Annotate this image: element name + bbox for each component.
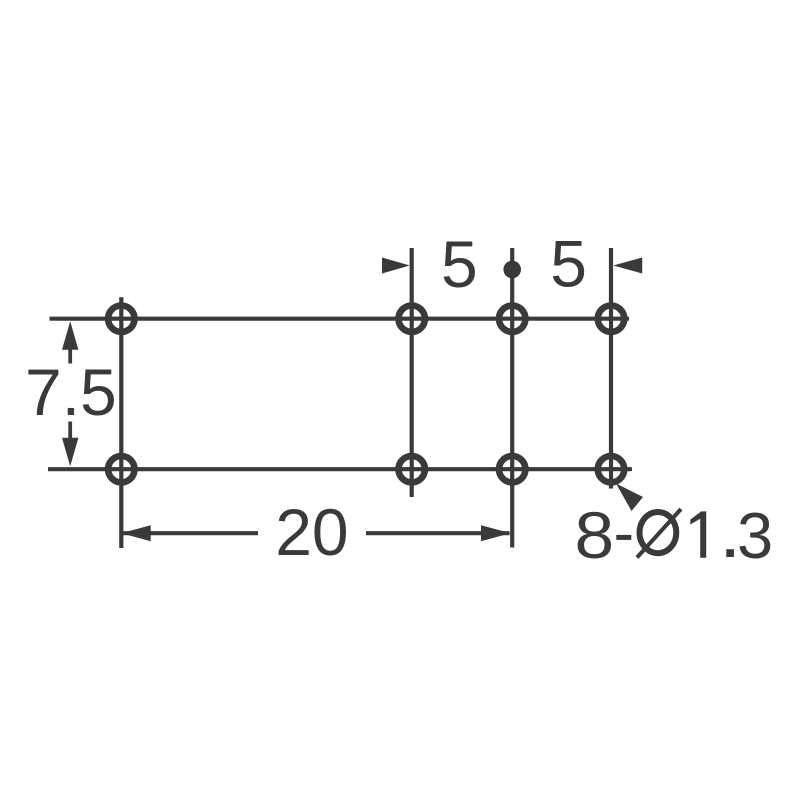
7.5 dim arrow tails [68, 349, 72, 364]
svg-text:20: 20 [275, 495, 348, 569]
7.5 dim down arrowhead [62, 438, 78, 467]
hole circle bottom row 1 [108, 456, 134, 482]
5-dim left arrowhead (points right) [382, 258, 410, 274]
hole circle top row 2 [399, 306, 425, 332]
7.5 dim up arrowhead [62, 321, 78, 350]
label hyphen [616, 535, 631, 540]
diameter symbol slash [637, 509, 681, 558]
svg-text:5: 5 [550, 226, 587, 300]
label digit 1 [690, 511, 706, 557]
svg-text:8: 8 [575, 499, 615, 573]
diameter symbol ring [640, 512, 677, 553]
hole circle top row 3 [499, 306, 525, 332]
hole circle bottom row 3 [499, 456, 525, 482]
svg-text:7.5: 7.5 [25, 355, 117, 429]
top horizontal line [50, 317, 630, 321]
20 dim line right segment [366, 531, 510, 535]
20 dim line left segment [123, 531, 258, 535]
hole circle top row 4 [598, 306, 624, 332]
svg-text:3: 3 [737, 499, 773, 572]
crosshair arms top row [120, 298, 124, 340]
vertical line col2 [410, 248, 414, 497]
label decimal point [726, 549, 734, 557]
20 dim right arrowhead (points right) [481, 525, 511, 541]
hole circle bottom row 4 [598, 456, 624, 482]
bottom horizontal line [48, 467, 631, 471]
5-dim right arrowhead (points left) [613, 258, 642, 274]
vertical line col1 [119, 297, 123, 548]
center reference dot [503, 261, 521, 279]
svg-text:5: 5 [441, 227, 478, 301]
hole circle bottom row 2 [399, 456, 425, 482]
20 dim left arrowhead (points left) [121, 525, 150, 541]
vertical line col3 [510, 248, 514, 548]
leader arrowhead for 8-Ø1.3 (points up-left to bottom-right hole) [616, 484, 643, 512]
crosshair arms bottom row [100, 467, 142, 471]
hole circle top row 1 [108, 306, 134, 332]
vertical line col4 [609, 248, 613, 489]
